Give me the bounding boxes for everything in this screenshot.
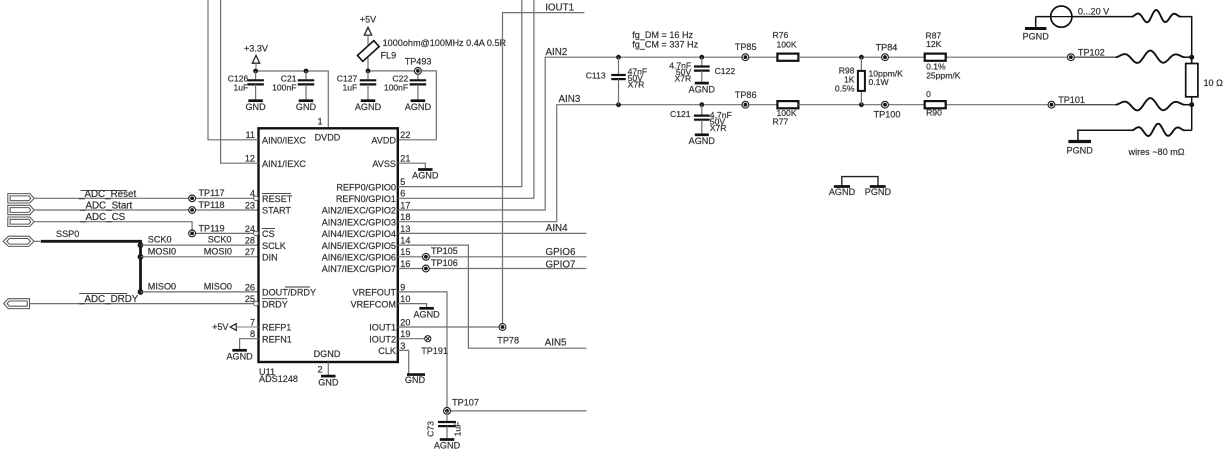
connector ADC_DRDY	[4, 299, 30, 309]
svg-text:7: 7	[250, 317, 255, 327]
svg-text:MISO0: MISO0	[204, 282, 232, 292]
svg-text:19: 19	[400, 329, 410, 339]
pin 20 IOUT1	[369, 317, 410, 332]
wire AIN0 from top	[208, 0, 259, 140]
bus junction MOSI0	[138, 254, 144, 260]
svg-text:+5V: +5V	[212, 322, 229, 332]
net label ADC_Reset	[78, 189, 136, 200]
svg-text:GPIO6: GPIO6	[546, 247, 576, 258]
test point TP85	[742, 54, 749, 61]
connector ADC_CS	[8, 217, 34, 226]
svg-text:15: 15	[400, 247, 410, 257]
bus SSP0	[41, 241, 141, 292]
capacitor C21	[272, 71, 314, 100]
svg-text:VREFCOM: VREFCOM	[351, 299, 396, 309]
pin 12 AIN1/IEXC	[245, 154, 307, 169]
wire SSP0 stub	[34, 240, 42, 242]
svg-text:0...20 V: 0...20 V	[1078, 7, 1110, 17]
resistor R90	[925, 101, 946, 108]
svg-text:AGND: AGND	[355, 102, 382, 112]
ground GND pin 2	[318, 376, 339, 387]
svg-text:+3.3V: +3.3V	[244, 44, 269, 54]
wire IOUT1 net	[398, 13, 585, 327]
pin 24 CS	[245, 224, 275, 239]
ground AGND tie	[829, 187, 856, 197]
svg-text:R76: R76	[773, 30, 789, 40]
wire VREFOUT to TP107	[398, 292, 587, 411]
svg-text:100nF: 100nF	[384, 83, 408, 93]
junction AIN2-C122	[699, 55, 704, 60]
wire +5V to FL9	[367, 35, 369, 71]
pin 23 START	[245, 200, 292, 215]
svg-text:DRDY: DRDY	[262, 299, 288, 309]
test point TP86	[742, 101, 749, 108]
junction at C21	[304, 69, 309, 74]
svg-text:6: 6	[400, 189, 405, 199]
svg-text:AIN4: AIN4	[546, 223, 568, 234]
svg-text:9: 9	[400, 282, 405, 292]
pin 2 DGND	[314, 349, 341, 375]
pin 1 DVDD	[315, 117, 341, 143]
wire SCK0	[141, 244, 259, 246]
connector ADC_Start	[8, 205, 34, 214]
power +5V arrow at REFP1	[212, 322, 258, 332]
test point TP493	[415, 68, 422, 75]
wire ADC_Start net	[34, 209, 258, 211]
svg-text:1: 1	[317, 117, 322, 127]
capacitor C122	[669, 57, 735, 83]
pin 3 CLK	[378, 341, 405, 356]
svg-text:0.5%: 0.5%	[835, 83, 855, 93]
ground AGND pin 10	[413, 308, 440, 319]
ground PGND top	[1023, 29, 1050, 42]
svg-text:AIN2/IEXC/GPIO2: AIN2/IEXC/GPIO2	[322, 206, 396, 216]
ground AGND pin 8	[226, 350, 253, 361]
svg-text:3: 3	[400, 341, 405, 351]
svg-text:START: START	[262, 206, 291, 216]
wire MOSI0	[141, 256, 259, 258]
wire lead TP101	[1117, 98, 1184, 110]
svg-text:TP191: TP191	[421, 346, 448, 356]
svg-text:PGND: PGND	[1067, 146, 1094, 156]
connector SSP0 bus	[3, 236, 34, 246]
svg-text:AIN2: AIN2	[546, 47, 568, 58]
svg-text:10: 10	[400, 294, 410, 304]
op-amp U11 ADS1248 body	[259, 128, 398, 362]
wire REFN1 to AGND	[240, 339, 259, 350]
svg-text:14: 14	[400, 236, 410, 246]
svg-text:ADS1248: ADS1248	[259, 374, 298, 384]
junction AIN3-C121	[699, 102, 704, 107]
wire lead source	[1132, 10, 1180, 22]
svg-text:REFP1: REFP1	[262, 323, 291, 333]
svg-text:26: 26	[245, 282, 255, 292]
svg-text:GND: GND	[405, 375, 426, 385]
svg-text:TP107: TP107	[452, 397, 479, 407]
wire AIN3 row	[619, 104, 778, 106]
svg-text:GND: GND	[296, 102, 317, 112]
svg-text:100K: 100K	[777, 40, 797, 50]
svg-text:8: 8	[250, 329, 255, 339]
test point TP100	[882, 101, 889, 108]
pin 17 AIN2/IEXC/GPIO2	[322, 200, 411, 215]
svg-text:PGND: PGND	[1023, 31, 1050, 41]
wire source to PGND	[1035, 17, 1037, 28]
svg-text:C113: C113	[586, 71, 606, 81]
svg-text:C73: C73	[426, 421, 436, 437]
svg-text:IOUT2: IOUT2	[369, 334, 396, 344]
svg-text:16: 16	[400, 259, 410, 269]
svg-text:SCK0: SCK0	[208, 235, 232, 245]
svg-text:CLK: CLK	[378, 346, 396, 356]
svg-text:1000ohm@100MHz 0.4A 0.5R: 1000ohm@100MHz 0.4A 0.5R	[383, 38, 507, 48]
junction R98 top	[859, 55, 864, 60]
test point TP105	[423, 253, 430, 260]
ground AGND under C73	[434, 440, 461, 451]
wire lead TP102 end	[1184, 56, 1192, 58]
svg-text:TP106: TP106	[431, 258, 458, 268]
pin 5 REFP0/GPIO0	[336, 177, 405, 192]
wire R77 to TP101	[798, 104, 1048, 106]
svg-text:X7R: X7R	[674, 73, 691, 83]
pin 25 DRDY	[245, 294, 288, 309]
ferrite bead FL9	[357, 41, 379, 62]
wire IOUT2	[398, 338, 425, 340]
svg-text:PGND: PGND	[865, 187, 892, 197]
pin 19 IOUT2	[369, 329, 410, 344]
test point TP101	[1048, 101, 1055, 108]
svg-text:TP84: TP84	[876, 43, 898, 53]
svg-text:AIN1/IEXC: AIN1/IEXC	[262, 159, 306, 169]
svg-text:IOUT1: IOUT1	[369, 323, 396, 333]
svg-text:AGND: AGND	[412, 171, 439, 181]
capacitor C121	[670, 105, 732, 134]
svg-text:SCK0: SCK0	[148, 235, 172, 245]
svg-text:CS: CS	[262, 229, 275, 239]
test point TP117	[189, 195, 196, 202]
pin 18 AIN3/IEXC/GPIO3	[322, 212, 411, 227]
svg-text:AIN3/IEXC/GPIO3: AIN3/IEXC/GPIO3	[322, 217, 396, 227]
svg-text:18: 18	[400, 212, 410, 222]
wire source corner	[1180, 17, 1192, 63]
svg-text:SCLK: SCLK	[262, 241, 286, 251]
svg-text:TP78: TP78	[497, 336, 519, 346]
capacitor C22	[384, 71, 426, 100]
svg-text:_ADC_CS: _ADC_CS	[79, 212, 126, 223]
pin 13 AIN4/IEXC/GPIO4	[322, 224, 411, 239]
svg-text:AIN5: AIN5	[545, 338, 567, 349]
wire bottom corner	[1184, 129, 1192, 131]
svg-text:DIN: DIN	[262, 253, 278, 263]
svg-text:AGND: AGND	[434, 441, 461, 451]
svg-text:R77: R77	[773, 117, 789, 127]
svg-text:AGND: AGND	[413, 310, 440, 320]
ground AGND under C121	[689, 135, 716, 146]
svg-text:GPIO7: GPIO7	[546, 259, 576, 270]
pin 28 SCLK	[245, 236, 286, 251]
ground AGND pin 21	[412, 170, 439, 181]
ground PGND tie	[865, 187, 892, 197]
svg-text:VREFOUT: VREFOUT	[353, 288, 397, 298]
svg-text:AIN7/IEXC/GPIO7: AIN7/IEXC/GPIO7	[322, 264, 396, 274]
wire lead bottom	[1132, 124, 1184, 136]
resistor 10 Ohm	[1186, 57, 1198, 130]
svg-text:TP119: TP119	[199, 224, 225, 234]
resistor R87	[925, 54, 946, 61]
pin 16 AIN7/IEXC/GPIO7	[322, 259, 411, 274]
pin 6 REFN0/GPIO1	[336, 189, 406, 204]
svg-text:+5V: +5V	[360, 14, 377, 24]
svg-text:20: 20	[400, 317, 410, 327]
svg-text:_ADC_Start: _ADC_Start	[79, 201, 133, 212]
resistor R76	[777, 54, 798, 61]
svg-text:0: 0	[926, 89, 931, 99]
junction R98 bottom	[859, 102, 864, 107]
svg-text:MOSI0: MOSI0	[204, 246, 232, 256]
svg-text:22: 22	[400, 130, 410, 140]
pin 15 AIN6/IEXC/GPIO6	[322, 247, 411, 262]
junction AIN3-C113	[616, 102, 621, 107]
pin 4 RESET	[250, 189, 293, 204]
pin 7 REFP1	[250, 317, 291, 332]
svg-text:TP105: TP105	[431, 246, 458, 256]
svg-text:1uF: 1uF	[453, 422, 463, 437]
svg-text:17: 17	[400, 200, 410, 210]
test point TP102	[1068, 54, 1075, 61]
wire AIN4 net	[398, 232, 587, 234]
capacitor C73	[426, 411, 463, 439]
net tie AGND-PGND wire	[842, 177, 878, 186]
junction load top	[1189, 55, 1194, 60]
resistor R77	[777, 101, 798, 108]
svg-text:TP101: TP101	[1058, 95, 1085, 105]
test point TP106	[423, 265, 430, 272]
test point TP119	[189, 230, 196, 237]
svg-text:MOSI0: MOSI0	[148, 246, 176, 256]
svg-text:2: 2	[317, 365, 322, 375]
wire +3.3V rail	[256, 71, 329, 128]
svg-text:REFP0/GPIO0: REFP0/GPIO0	[336, 182, 396, 192]
resistor R98	[858, 57, 865, 104]
wire AIN2 row	[619, 56, 778, 58]
capacitor C113	[586, 57, 648, 104]
svg-text:MISO0: MISO0	[148, 282, 176, 292]
test point TP107	[444, 408, 451, 415]
svg-text:10 Ω: 10 Ω	[1204, 78, 1224, 88]
svg-text:0.1W: 0.1W	[869, 77, 890, 87]
svg-text:AIN3: AIN3	[559, 94, 581, 105]
power symbol +3.3V	[244, 44, 269, 72]
wire TP102 to squiggle	[1074, 56, 1116, 58]
pin 14 AIN5/IEXC/GPIO5	[322, 236, 411, 251]
wire ADC_CS net	[34, 222, 254, 234]
svg-text:X7R: X7R	[710, 123, 727, 133]
ground GND pin 3	[405, 375, 426, 386]
wire AIN3 net	[398, 105, 619, 222]
wire GPIO7 net	[398, 268, 587, 270]
svg-text:AIN5/IEXC/GPIO5: AIN5/IEXC/GPIO5	[322, 241, 396, 251]
svg-text:DGND: DGND	[314, 349, 341, 359]
wire R76 to TP102	[798, 56, 1067, 58]
svg-text:AGND: AGND	[689, 136, 716, 146]
svg-text:1uF: 1uF	[233, 83, 248, 93]
svg-text:TP100: TP100	[874, 109, 901, 119]
pin 11 AIN0/IEXC	[246, 130, 307, 145]
svg-text:DVDD: DVDD	[315, 132, 341, 142]
svg-text:AVSS: AVSS	[372, 159, 396, 169]
wire VREFCOM to AGND	[398, 304, 427, 308]
wire pin6 REFN0	[398, 0, 534, 198]
svg-text:AGND: AGND	[689, 84, 716, 94]
capacitor C126	[228, 71, 264, 100]
svg-text:fg_CM = 337 Hz: fg_CM = 337 Hz	[632, 39, 698, 49]
wire GPIO6 net	[398, 256, 587, 258]
junction +5V at C127	[366, 69, 371, 74]
wire AIN2 net	[398, 57, 619, 210]
pin 22 AVDD	[371, 130, 410, 145]
svg-text:TP118: TP118	[199, 200, 225, 210]
svg-text:TP85: TP85	[735, 42, 757, 52]
svg-text:25ppm/K: 25ppm/K	[926, 71, 961, 81]
test point TP118	[189, 207, 196, 214]
junction AIN2-C113	[616, 55, 621, 60]
pin 9 VREFOUT	[353, 282, 406, 297]
svg-text:TP117: TP117	[199, 188, 225, 198]
junction +3.3V at C126	[253, 69, 258, 74]
connector ADC_Reset	[8, 194, 34, 203]
bus junction MISO0	[138, 289, 144, 295]
pin 10 VREFCOM	[351, 294, 411, 309]
net label ADC_DRDY	[78, 293, 139, 305]
svg-text:11: 11	[246, 130, 255, 140]
svg-text:12K: 12K	[926, 39, 942, 49]
svg-text:IOUT1: IOUT1	[545, 3, 574, 14]
wire TP101 to squiggle	[1055, 104, 1117, 106]
power symbol +5V	[360, 14, 377, 35]
svg-text:RESET: RESET	[262, 194, 293, 204]
ground AGND under C22	[405, 101, 432, 112]
voltage source 0..20V	[1036, 6, 1133, 27]
svg-text:GND: GND	[245, 102, 266, 112]
wire MISO0	[141, 291, 259, 293]
wire ADC_DRDY net	[30, 303, 254, 305]
pin 26 DOUT/DRDY	[245, 282, 316, 297]
svg-text:wires ~80 mΩ: wires ~80 mΩ	[1128, 147, 1185, 157]
svg-text:AIN4/IEXC/GPIO4: AIN4/IEXC/GPIO4	[322, 229, 396, 239]
no-connect TP191	[425, 336, 431, 342]
svg-text:23: 23	[245, 200, 255, 210]
svg-text:AIN6/IEXC/GPIO6: AIN6/IEXC/GPIO6	[322, 253, 396, 263]
ground AGND under C122	[689, 83, 716, 94]
wire AVSS	[398, 163, 426, 168]
svg-text:C121: C121	[670, 109, 691, 119]
svg-text:_ADC_DRDY: _ADC_DRDY	[78, 294, 139, 305]
svg-text:C122: C122	[715, 66, 736, 76]
svg-text:100nF: 100nF	[272, 83, 296, 93]
pin 8 REFN1	[250, 329, 292, 344]
test point TP84	[882, 54, 889, 61]
capacitor C127	[337, 71, 376, 100]
ground GND under C21	[296, 101, 317, 112]
svg-text:AGND: AGND	[829, 187, 856, 197]
svg-text:TP102: TP102	[1078, 48, 1105, 58]
svg-text:AVDD: AVDD	[371, 136, 396, 146]
wire bottom PGND	[1078, 130, 1133, 140]
wire AIN5 net	[398, 245, 587, 348]
wire +5V rail AVDD	[368, 71, 436, 140]
svg-text:13: 13	[400, 224, 410, 234]
junction load bottom	[1189, 102, 1194, 107]
ground PGND bottom	[1067, 142, 1094, 156]
svg-text:REFN0/GPIO1: REFN0/GPIO1	[336, 194, 396, 204]
wire AIN1 from top	[221, 0, 259, 163]
svg-text:27: 27	[245, 247, 255, 257]
svg-text:1uF: 1uF	[342, 83, 357, 93]
svg-text:AGND: AGND	[226, 352, 253, 362]
svg-text:REFN1: REFN1	[262, 334, 292, 344]
svg-text:5: 5	[400, 177, 405, 187]
svg-text:X7R: X7R	[628, 80, 645, 90]
svg-text:AGND: AGND	[405, 102, 432, 112]
wire lead TP102	[1117, 51, 1184, 63]
svg-text:DOUT/DRDY: DOUT/DRDY	[262, 288, 316, 298]
svg-text:12: 12	[245, 154, 255, 164]
svg-text:FL9: FL9	[381, 50, 397, 60]
svg-text:28: 28	[245, 236, 255, 246]
test point TP78	[499, 324, 506, 331]
pin 27 DIN	[245, 247, 278, 262]
wire ADC_Reset net	[34, 197, 254, 199]
junction at C22	[416, 69, 421, 74]
bus junction SCK0	[138, 242, 144, 248]
svg-text:TP86: TP86	[735, 90, 757, 100]
svg-text:AIN0/IEXC: AIN0/IEXC	[262, 136, 306, 146]
wire lead TP101 end	[1184, 104, 1192, 106]
svg-text:R90: R90	[926, 108, 942, 118]
pin 21 AVSS	[372, 154, 410, 169]
wire pin5 REFP0	[398, 0, 522, 187]
svg-text:GND: GND	[318, 377, 339, 387]
ground GND under C126	[245, 101, 266, 112]
svg-text:SSP0: SSP0	[56, 229, 79, 239]
ground AGND under C127	[355, 101, 382, 112]
svg-text:TP493: TP493	[405, 57, 432, 67]
svg-text:21: 21	[400, 154, 410, 164]
wire CLK to GND	[398, 350, 409, 373]
